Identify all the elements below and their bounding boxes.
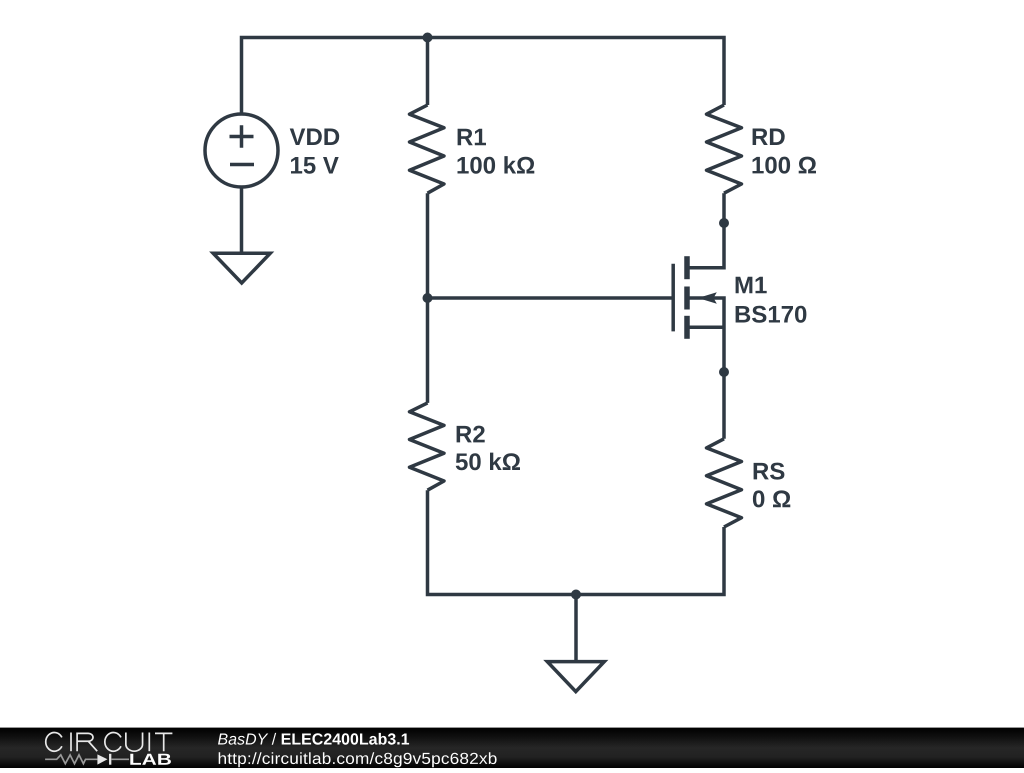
label RS value: 0 Ohm <box>753 490 790 507</box>
voltage source V1 (VDD 15 V) <box>205 114 278 187</box>
wire: R1 bottom lead to gate node <box>426 193 430 298</box>
footer bar background <box>0 728 1024 768</box>
node: source junction <box>719 367 729 377</box>
label RS <box>754 463 785 480</box>
M1 drain connection <box>687 223 724 268</box>
CircuitLab logo wire after diode <box>111 758 129 760</box>
M1 source connection <box>687 326 724 330</box>
resistor R2 <box>410 403 445 490</box>
node: drain junction <box>719 218 729 228</box>
CircuitLab logo diode symbol <box>97 754 107 764</box>
wire: gate node to R2 top <box>426 298 430 403</box>
CircuitLab logo waveform: wire + resistor zigzag <box>45 755 97 764</box>
label RD <box>753 129 785 146</box>
wire: R1 top lead from top rail <box>426 38 430 106</box>
wire: gate node to M1 gate <box>428 296 672 300</box>
resistor RD <box>707 105 742 193</box>
wire: bottom rail (R2 lead, rail, RS lead) <box>428 490 725 594</box>
wire: RD bottom lead to drain node <box>722 193 726 223</box>
footer title: BasDY / ELEC2400Lab3.1 <box>218 733 409 745</box>
footer url <box>219 752 497 767</box>
CircuitLab logo wordmark CIRCUIT (thin drawn letters) <box>46 733 173 752</box>
M1 channel top segment <box>684 256 690 279</box>
label M1 model: BS170 <box>736 306 807 323</box>
wire: source node to RS top <box>722 372 726 439</box>
wire: top rail (V1 lead, rail, RD lead) <box>242 38 725 115</box>
label V1 value: 15 V <box>291 157 339 174</box>
M1 gate bar <box>671 264 675 332</box>
node: gate junction <box>423 293 433 303</box>
CircuitLab logo wordmark LAB <box>130 754 171 765</box>
node: top rail / R1 junction <box>423 33 433 43</box>
ground GND1 <box>213 253 270 283</box>
M1 body arrow <box>698 292 717 304</box>
resistor R1 <box>410 105 445 193</box>
label V1: VDD <box>290 129 340 146</box>
ground GND2 <box>547 662 604 692</box>
label R2 <box>457 426 485 443</box>
resistor RS <box>707 439 742 527</box>
M1 channel bottom segment <box>684 316 690 339</box>
wire: bottom rail to ground <box>574 595 578 662</box>
label R1 value: 100 kOhm <box>458 156 535 174</box>
CircuitLab logo diode cathode bar <box>109 754 111 765</box>
M1 channel middle segment <box>684 287 690 310</box>
label R2 value: 50 kOhm <box>456 453 520 471</box>
wire: V1 bottom lead to ground <box>240 187 244 254</box>
transistor M1 (BS170 NMOS) <box>673 223 724 372</box>
label RD value: 100 Ohm <box>753 157 817 174</box>
label M1 <box>736 277 767 294</box>
M1 body line <box>690 298 725 372</box>
label R1 <box>458 129 486 146</box>
node: bottom rail ground junction <box>571 590 581 600</box>
